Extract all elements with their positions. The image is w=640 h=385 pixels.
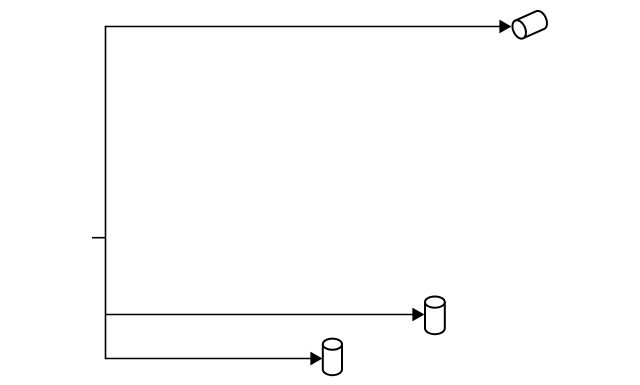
arrowhead: top branch [500,20,511,33]
cylinder: tilted (top right) [510,9,550,41]
arrowhead: bottom branch [311,352,322,365]
wire: left stub tick [92,237,106,239]
cylinder: bottom (upright) [323,339,342,376]
wire: bottom branch to bottom cylinder [106,358,311,360]
cylinder: middle (upright) [425,297,445,335]
wire: middle branch to middle cylinder [106,314,413,316]
arrowhead: middle branch [413,308,424,321]
wire: vertical trunk [105,26,107,360]
wire: top branch to tilted cylinder [105,26,500,28]
